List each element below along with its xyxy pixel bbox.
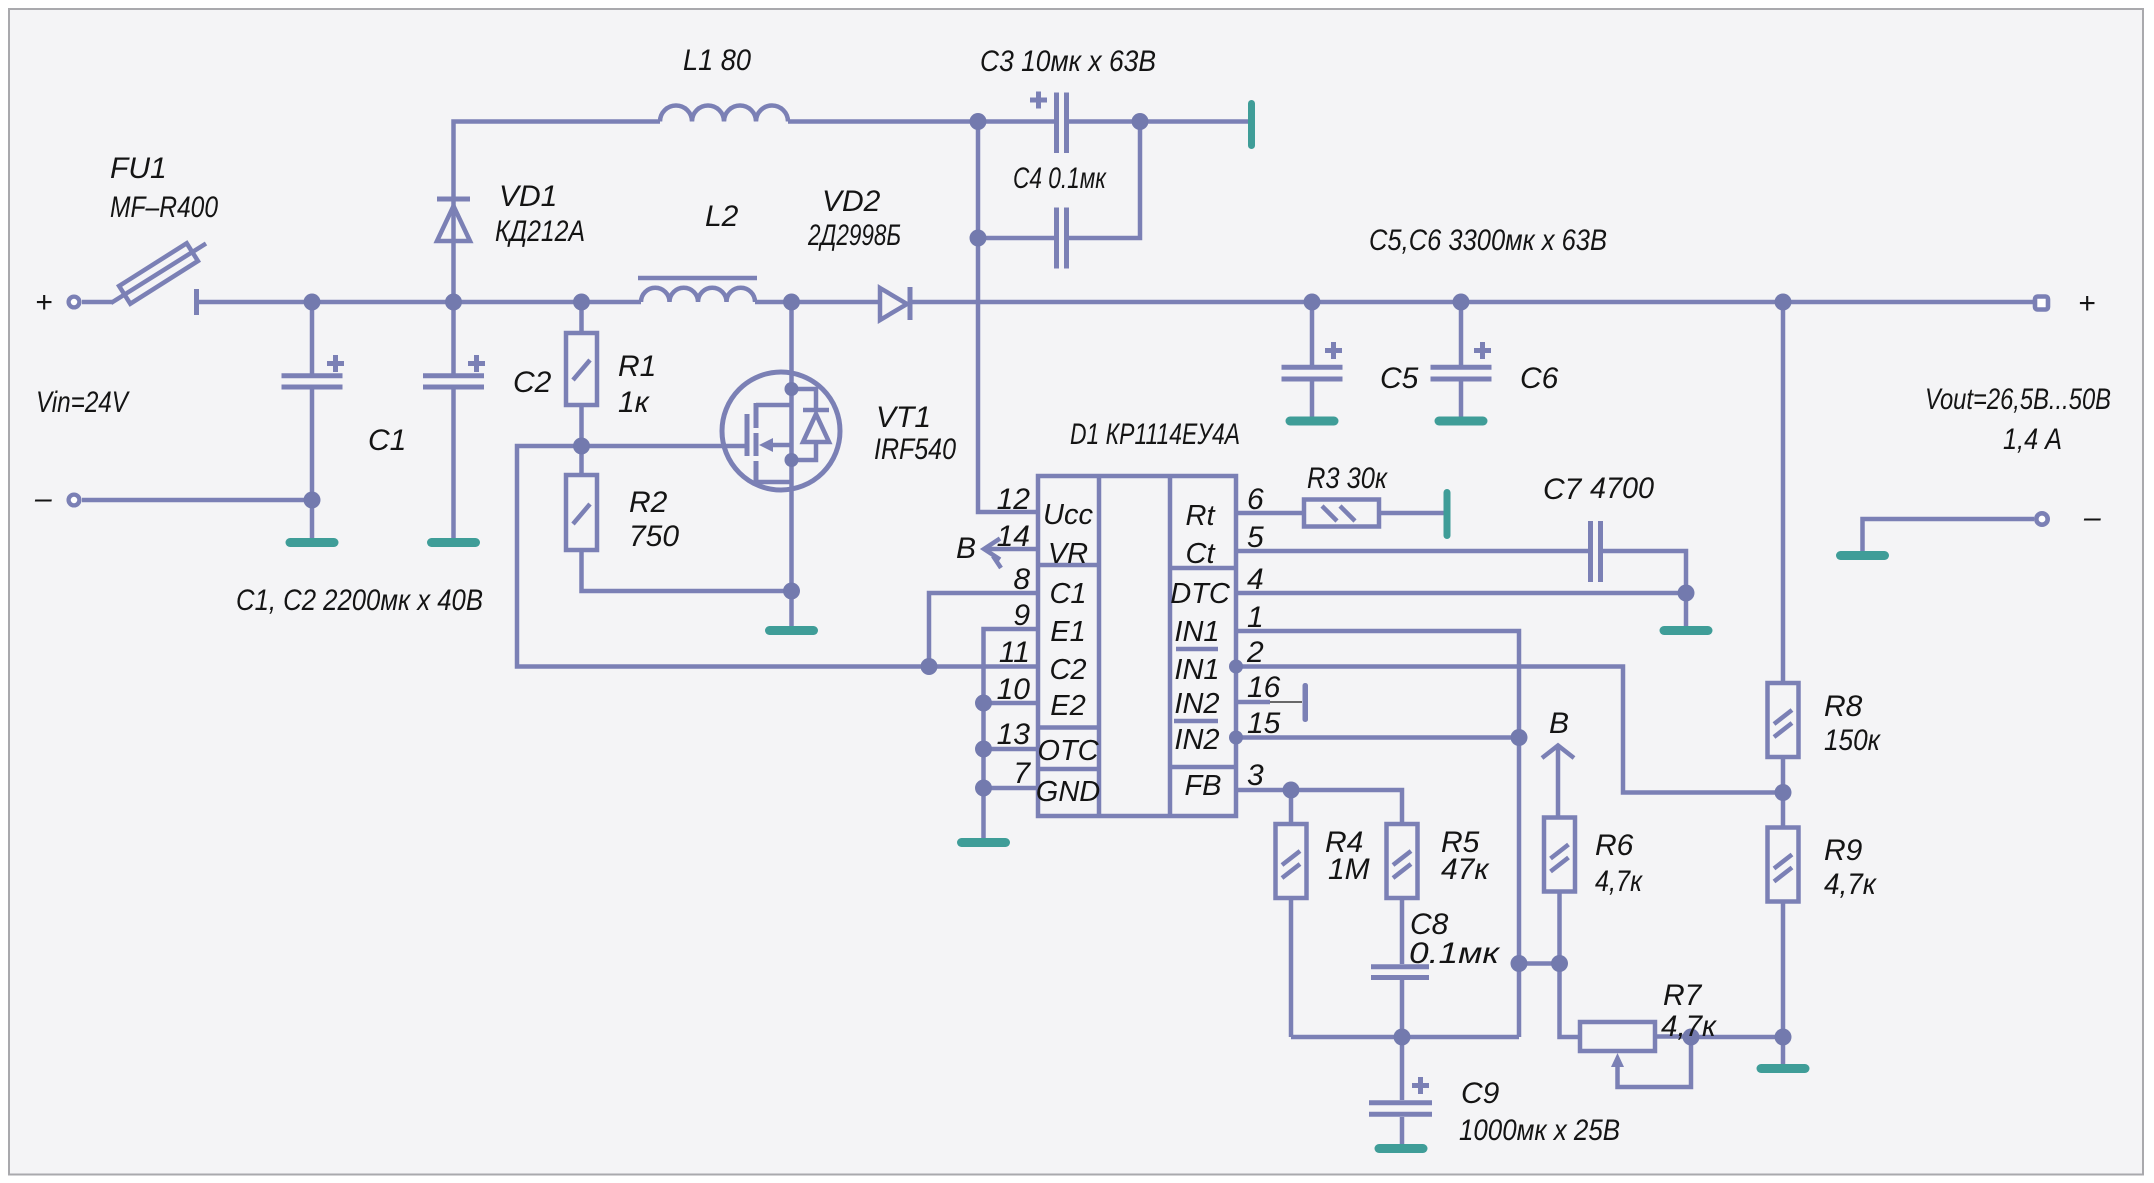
node: net/R6 tap right bbox=[1551, 955, 1568, 972]
node: rail/VD1 bbox=[445, 294, 462, 311]
ground under C1 bbox=[286, 538, 339, 547]
svg-text:150к: 150к bbox=[1824, 724, 1882, 757]
node: source/R2 bbox=[783, 583, 800, 600]
svg-text:8: 8 bbox=[1013, 563, 1030, 596]
wire: pin 2 (inverted IN1) to R8/R9 junction bbox=[1236, 667, 1783, 793]
wire: main output rail bbox=[910, 300, 2034, 305]
terminal: output minus bbox=[2036, 513, 2047, 524]
svg-text:R9: R9 bbox=[1824, 834, 1863, 867]
svg-text:14: 14 bbox=[997, 520, 1030, 553]
wire: main rail L2-to-VD2 bbox=[755, 300, 880, 305]
capacitor C3 bbox=[1030, 92, 1067, 154]
svg-text:6: 6 bbox=[1247, 483, 1264, 516]
svg-text:R7: R7 bbox=[1663, 979, 1703, 1012]
resistor R9 bbox=[1768, 828, 1799, 1065]
wire: input plus lead bbox=[82, 300, 113, 305]
overline IN2 (pin15 row) bbox=[1174, 719, 1218, 724]
ground under R9 bbox=[1757, 1064, 1810, 1073]
svg-text:GND: GND bbox=[1036, 776, 1101, 808]
inductor L1 bbox=[660, 106, 788, 122]
svg-text:16: 16 bbox=[1247, 671, 1281, 704]
svg-text:+: + bbox=[2078, 287, 2096, 320]
svg-text:Ucc: Ucc bbox=[1043, 499, 1093, 531]
svg-text:Vout=26,5В...50В: Vout=26,5В...50В bbox=[1925, 383, 2111, 416]
inductor L2 bbox=[638, 278, 757, 302]
node: pin8/pin11 bbox=[921, 658, 938, 675]
node: pin2 at IC edge bbox=[1229, 660, 1243, 674]
rail flag tick (teal) top rail bbox=[1248, 100, 1255, 149]
node: E2 bus bbox=[975, 695, 992, 712]
node: net/R6 tap left bbox=[1511, 955, 1528, 972]
svg-text:1000мк x 25В: 1000мк x 25В bbox=[1459, 1114, 1620, 1147]
node: pot wiper bbox=[1683, 1029, 1700, 1046]
node: VT1 source internal bbox=[785, 453, 799, 467]
svg-text:9: 9 bbox=[1013, 599, 1030, 632]
capacitor C9 bbox=[1369, 1037, 1432, 1144]
node: GND bus bbox=[975, 780, 992, 797]
ground under IC bbox=[957, 838, 1010, 847]
svg-text:13: 13 bbox=[997, 718, 1031, 751]
node: R1/R2/gate bbox=[573, 438, 590, 455]
wire: top boost rail bbox=[454, 122, 1250, 303]
electrolytic C6 bbox=[1431, 302, 1492, 417]
resistor R2 bbox=[566, 446, 792, 591]
wire: pin 9 E1 and ground bus bbox=[984, 629, 1039, 838]
node: rail/VT1 drain bbox=[783, 294, 800, 311]
resistor R5 bbox=[1387, 824, 1418, 964]
node: rail/C6 bbox=[1453, 294, 1470, 311]
node: rail/C1 bbox=[304, 294, 321, 311]
node: pin1/pin15 bbox=[1511, 729, 1528, 746]
capacitor C4 bbox=[978, 122, 1140, 269]
node: bus/C8-C9 bbox=[1394, 1029, 1411, 1046]
svg-text:10: 10 bbox=[997, 673, 1031, 706]
svg-text:C2: C2 bbox=[513, 366, 552, 399]
svg-text:E1: E1 bbox=[1050, 616, 1085, 648]
node: rail/R8 bbox=[1775, 294, 1792, 311]
node: top rail/C3-C4 right bbox=[1132, 113, 1149, 130]
node: R8/R9 bbox=[1775, 784, 1792, 801]
svg-text:4,7к: 4,7к bbox=[1595, 865, 1644, 898]
resistor R1 bbox=[566, 302, 597, 446]
wire: R8 column from output rail bbox=[1781, 302, 1786, 683]
wire: input minus rail bbox=[82, 498, 312, 503]
svg-text:R6: R6 bbox=[1595, 829, 1634, 862]
node: C4 left bbox=[970, 230, 987, 247]
net flag B above R6 bbox=[1542, 746, 1574, 818]
svg-text:IN1: IN1 bbox=[1174, 616, 1219, 648]
svg-text:C5: C5 bbox=[1380, 362, 1419, 395]
IC D1 KP1114EU4A outline bbox=[1038, 476, 1236, 816]
svg-text:47к: 47к bbox=[1441, 853, 1490, 886]
svg-text:D1 КР1114ЕУ4А: D1 КР1114ЕУ4А bbox=[1070, 418, 1240, 451]
capacitor C7 bbox=[1591, 521, 1687, 626]
svg-text:2Д2998Б: 2Д2998Б bbox=[807, 219, 901, 252]
ground at output minus bbox=[1836, 551, 1889, 560]
svg-text:VR: VR bbox=[1048, 538, 1088, 570]
svg-text:R8: R8 bbox=[1824, 690, 1863, 723]
svg-text:0.1мк: 0.1мк bbox=[1409, 937, 1501, 970]
wire: Ucc column (top rail to pin 12) bbox=[978, 122, 1038, 513]
svg-text:4,7к: 4,7к bbox=[1824, 868, 1878, 901]
svg-text:2: 2 bbox=[1246, 636, 1264, 669]
terminal: input minus bbox=[69, 495, 80, 506]
wire: feedback bus bbox=[1291, 1035, 1519, 1040]
wire: pin 5 Ct to C7 bbox=[1236, 549, 1588, 554]
wire: pin 13 OTC stub bbox=[984, 747, 1039, 752]
svg-text:IRF540: IRF540 bbox=[874, 433, 956, 466]
node: pin15 at IC edge bbox=[1229, 731, 1243, 745]
svg-text:R1: R1 bbox=[618, 350, 656, 383]
svg-text:OTC: OTC bbox=[1037, 735, 1099, 767]
svg-text:VD1: VD1 bbox=[499, 180, 557, 213]
resistor R8 bbox=[1768, 683, 1799, 828]
ground under C6 bbox=[1435, 417, 1488, 426]
svg-text:12: 12 bbox=[997, 483, 1031, 516]
svg-text:1,4 А: 1,4 А bbox=[2003, 423, 2062, 456]
resistor R4 bbox=[1276, 790, 1307, 1037]
svg-text:1: 1 bbox=[1247, 601, 1264, 634]
transistor VT1 MOSFET bbox=[722, 302, 840, 626]
node: R9 bottom bbox=[1775, 1029, 1792, 1046]
svg-text:C6: C6 bbox=[1520, 362, 1559, 395]
wire: pot to R9 bottom bbox=[1691, 1035, 1783, 1040]
ground under VT1 source bbox=[765, 626, 818, 635]
svg-text:КД212А: КД212А bbox=[495, 215, 585, 248]
svg-text:MF–R400: MF–R400 bbox=[110, 191, 218, 224]
svg-text:4700: 4700 bbox=[1590, 472, 1654, 505]
capacitor C8 bbox=[1371, 967, 1429, 1037]
ground under C5 bbox=[1286, 417, 1339, 426]
svg-text:750: 750 bbox=[629, 520, 679, 553]
terminal: input plus bbox=[69, 297, 80, 308]
svg-text:IN1: IN1 bbox=[1174, 654, 1219, 686]
svg-text:FB: FB bbox=[1184, 770, 1221, 802]
wire: main rail left segment bbox=[197, 300, 642, 305]
svg-text:15: 15 bbox=[1247, 707, 1281, 740]
svg-text:3: 3 bbox=[1247, 759, 1264, 792]
svg-text:–: – bbox=[2083, 501, 2101, 534]
svg-text:Rt: Rt bbox=[1186, 500, 1217, 532]
node: VT1 drain internal bbox=[785, 382, 799, 396]
wire: pin 8 C1 bbox=[929, 593, 1038, 667]
svg-text:C1: C1 bbox=[368, 424, 406, 457]
svg-text:–: – bbox=[34, 482, 52, 515]
svg-text:4: 4 bbox=[1247, 563, 1264, 596]
svg-text:11: 11 bbox=[999, 636, 1030, 669]
svg-text:C1: C1 bbox=[1049, 578, 1086, 610]
svg-text:C2: C2 bbox=[1049, 654, 1086, 686]
resistor R3 bbox=[1304, 500, 1444, 527]
svg-text:7: 7 bbox=[1013, 757, 1031, 790]
svg-text:VD2: VD2 bbox=[822, 185, 881, 218]
svg-text:4,7к: 4,7к bbox=[1661, 1010, 1718, 1043]
node: FB/R4 bbox=[1283, 782, 1300, 799]
svg-text:E2: E2 bbox=[1050, 690, 1085, 722]
svg-text:1к: 1к bbox=[618, 386, 651, 419]
node: rail/C5 bbox=[1304, 294, 1321, 311]
capacitor C2 bbox=[423, 302, 485, 538]
svg-text:C1, C2 2200мк x 40В: C1, C2 2200мк x 40В bbox=[236, 584, 483, 617]
wire: pin 7 GND stub bbox=[984, 786, 1039, 791]
svg-text:DTC: DTC bbox=[1170, 578, 1231, 610]
wire: R6 tap to pin1/pin15 net bbox=[1519, 961, 1560, 966]
ground under C7 bbox=[1660, 626, 1713, 635]
capacitor C1 bbox=[282, 302, 345, 538]
diode VD2 bbox=[880, 287, 910, 320]
wire: pin 3 FB bbox=[1236, 790, 1402, 824]
svg-text:+: + bbox=[35, 286, 53, 319]
wire: pin 16 IN2 stub with open end bbox=[1236, 683, 1308, 722]
svg-text:C5,C6 3300мк x 63В: C5,C6 3300мк x 63В bbox=[1369, 224, 1607, 257]
node: minus/C1 bbox=[304, 492, 321, 509]
wire: gate lead bbox=[582, 444, 748, 449]
svg-text:Ct: Ct bbox=[1186, 538, 1217, 570]
svg-text:C7: C7 bbox=[1543, 473, 1583, 506]
svg-text:L2: L2 bbox=[705, 200, 739, 233]
overline IN1 (pin2 row) bbox=[1176, 647, 1218, 652]
wire: pin 14 VR arrow B bbox=[984, 539, 1038, 569]
wire: pin 10 E2 stub bbox=[984, 701, 1039, 706]
diode VD1 bbox=[437, 199, 470, 241]
electrolytic C5 bbox=[1282, 302, 1343, 417]
wire: pin 4 DTC bbox=[1236, 591, 1686, 596]
svg-text:IN2: IN2 bbox=[1174, 724, 1219, 756]
node: DTC/C7 ground bbox=[1678, 585, 1695, 602]
node: top rail/Ucc column bbox=[970, 113, 987, 130]
fuse FU1 bbox=[111, 243, 206, 315]
resistor R6 bbox=[1544, 818, 1580, 1038]
potentiometer R7 bbox=[1580, 1022, 1691, 1087]
wire: pin 15 (inverted IN2) bbox=[1236, 735, 1519, 740]
svg-text:R2: R2 bbox=[629, 486, 668, 519]
svg-text:C9: C9 bbox=[1461, 1077, 1500, 1110]
svg-text:Vin=24V: Vin=24V bbox=[36, 386, 130, 419]
wire: pin 1 IN1 bbox=[1236, 631, 1519, 1037]
rail flag tick (teal) after R3 bbox=[1444, 489, 1451, 539]
wire: pin 6 Rt to R3 bbox=[1236, 511, 1304, 516]
svg-text:C4 0.1мк: C4 0.1мк bbox=[1013, 162, 1107, 195]
svg-text:VT1: VT1 bbox=[876, 401, 931, 434]
svg-text:B: B bbox=[1549, 707, 1569, 740]
node: OTC bus bbox=[975, 741, 992, 758]
svg-text:R3 30к: R3 30к bbox=[1307, 462, 1389, 495]
svg-text:B: B bbox=[956, 532, 976, 565]
svg-text:FU1: FU1 bbox=[110, 152, 167, 185]
ground under C9 bbox=[1375, 1144, 1428, 1153]
svg-text:IN2: IN2 bbox=[1174, 688, 1219, 720]
svg-text:1M: 1M bbox=[1328, 853, 1370, 886]
svg-text:5: 5 bbox=[1247, 521, 1264, 554]
node: rail/R1 bbox=[573, 294, 590, 311]
ground under C2 bbox=[427, 538, 480, 547]
svg-text:C3 10мк x 63В: C3 10мк x 63В bbox=[980, 45, 1156, 78]
terminal: output plus (square) bbox=[2035, 297, 2048, 310]
svg-text:L1 80: L1 80 bbox=[683, 44, 751, 77]
wire: gate drive to pin 11 (C2 of IC) bbox=[517, 446, 1038, 667]
wire: output minus bbox=[1863, 519, 2035, 551]
